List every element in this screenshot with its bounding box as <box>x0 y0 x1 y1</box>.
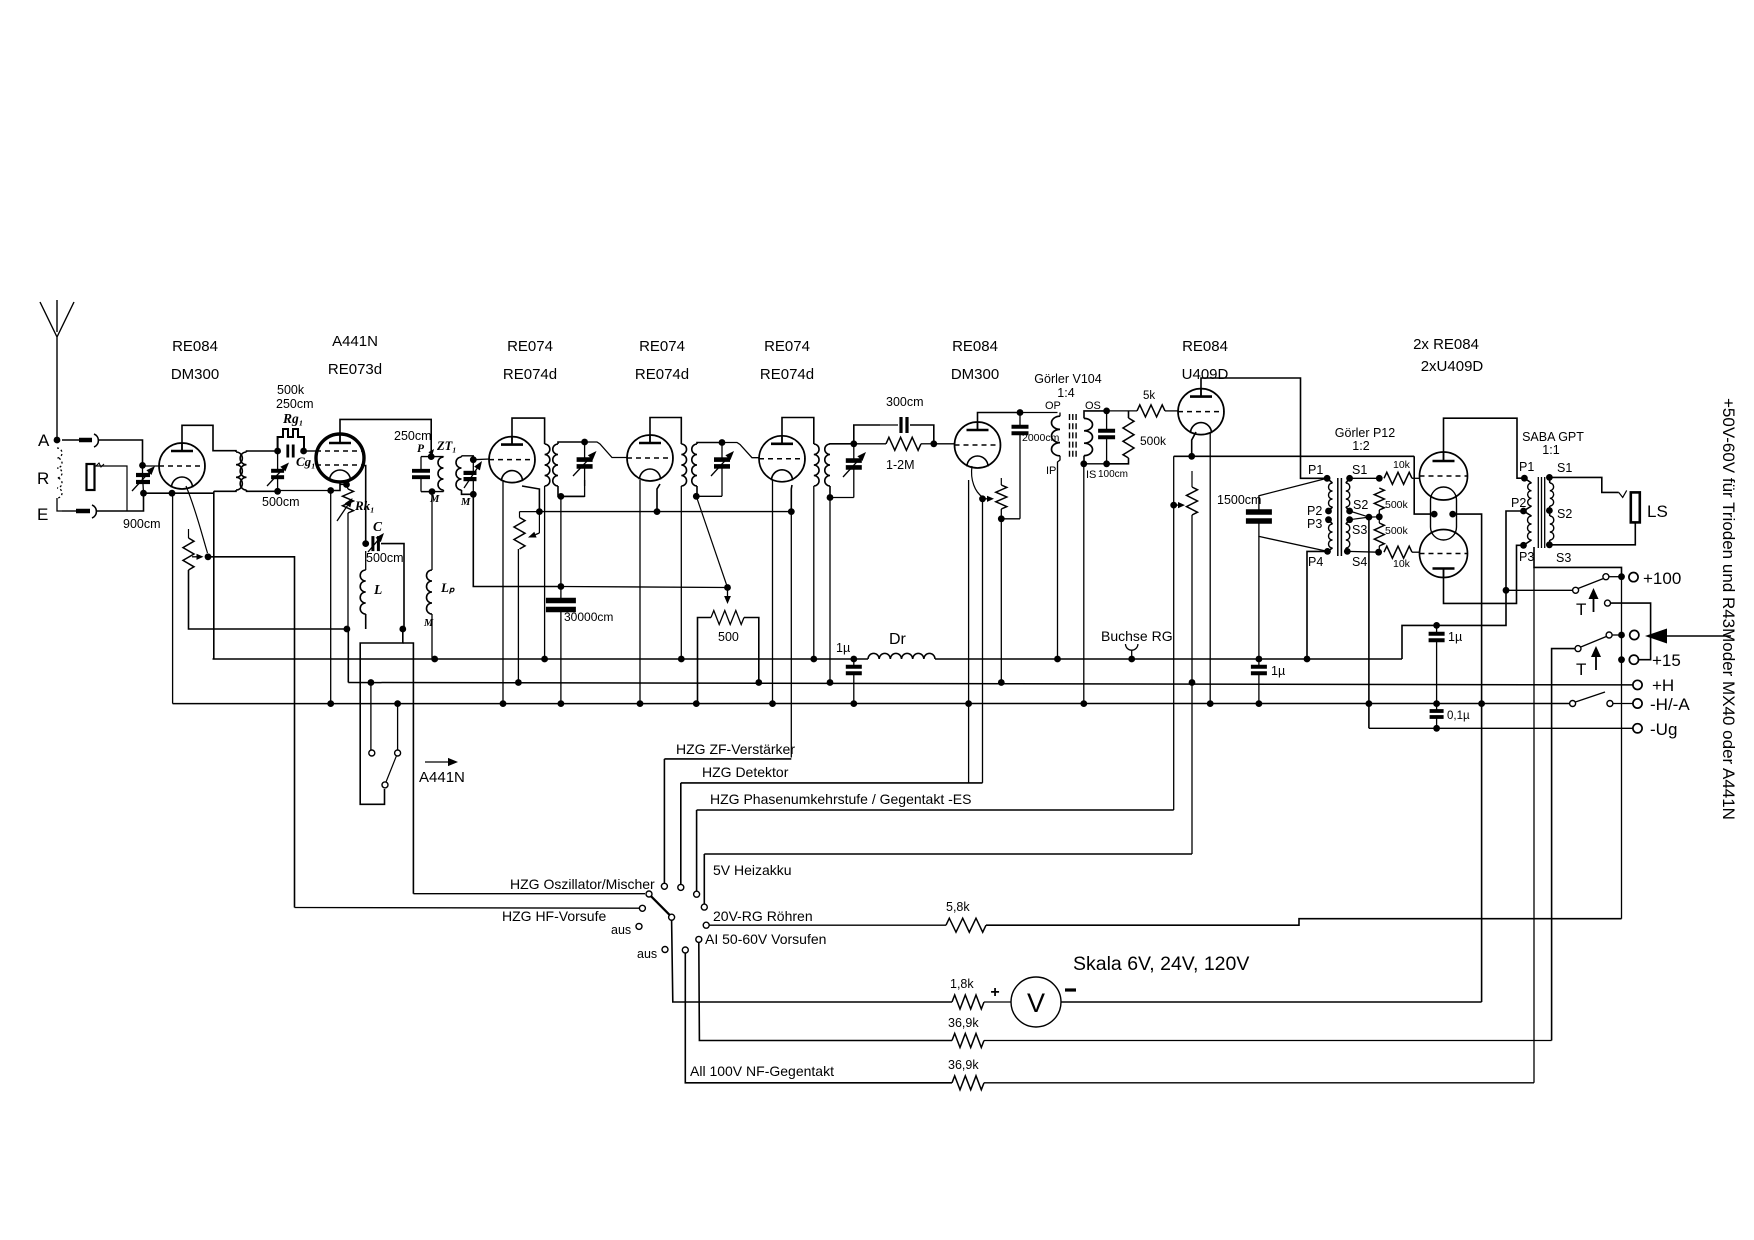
wire +100 down feed <box>1621 577 1623 919</box>
voltmeter V <box>1011 977 1061 1027</box>
jack Buchse RG <box>1126 644 1138 650</box>
bus1 anode return <box>213 658 1403 660</box>
wire LS bottom to S3 <box>1549 522 1635 545</box>
svg-text:0,1µ: 0,1µ <box>1447 710 1470 722</box>
svg-text:P4: P4 <box>1308 555 1323 569</box>
svg-text:L: L <box>373 582 382 597</box>
label minus <box>1065 988 1076 991</box>
svg-text:P: P <box>417 443 425 455</box>
svg-text:900cm: 900cm <box>123 517 161 531</box>
transformer T4 primary coil <box>814 444 819 486</box>
rotary contact c3 <box>694 891 700 897</box>
wire Lp bus segment <box>432 658 435 660</box>
wire 500cm cap vertical <box>277 451 279 491</box>
rotary contact c4 <box>701 904 707 910</box>
svg-text:HZG Oszillator/Mischer: HZG Oszillator/Mischer <box>510 876 655 892</box>
wire ZT1 secondary top <box>462 456 474 460</box>
capacitor 300cm series <box>899 417 902 433</box>
node dot 30000cm top <box>558 583 565 590</box>
wire V6 filament leg <box>968 480 970 704</box>
svg-text:SABA GPT: SABA GPT <box>1522 430 1584 444</box>
node dot V7 cathode <box>1188 453 1195 460</box>
node dot ZT1 secondary bottom <box>470 491 477 498</box>
svg-text:A441N: A441N <box>419 769 465 786</box>
arrow V3 bias tap <box>538 512 540 533</box>
wire P4 to bus1 <box>1307 551 1328 659</box>
svg-text:T: T <box>1576 660 1586 679</box>
node dot V6 on bus2 <box>998 679 1005 686</box>
svg-text:2xU409D: 2xU409D <box>1421 358 1484 375</box>
resistor shared cathode bias <box>514 518 525 550</box>
arrow V7 bias <box>1174 504 1178 506</box>
terminal +H <box>1633 680 1642 689</box>
resistor 10k upper <box>1384 472 1412 484</box>
svg-text:30000cm: 30000cm <box>564 610 613 624</box>
wire T4 sec top to tank <box>830 443 854 445</box>
wire C cap to L rail <box>381 544 404 629</box>
svg-text:DM300: DM300 <box>951 366 999 383</box>
wire T3 grid jog to V5 <box>722 443 760 458</box>
tube V1 RE084 DM300 <box>159 443 205 489</box>
wire V2 cathode junction <box>340 485 348 490</box>
node dot V6 filament on bus3 <box>965 700 972 707</box>
wire 10k lower to V9 grid <box>1412 551 1420 553</box>
tube V7 RE084 U409D <box>1178 389 1224 435</box>
wire RC bottom join <box>1001 518 1020 520</box>
capacitor 1500cm <box>1246 509 1272 515</box>
node dot V6 plate node <box>1017 409 1024 416</box>
svg-text:-Ug: -Ug <box>1650 720 1677 739</box>
wire bias resistor bottom leg <box>517 549 519 683</box>
rotary contact aus left <box>636 923 642 929</box>
capacitor 2000cm <box>1012 425 1029 429</box>
resistor V6 bias <box>996 485 1007 509</box>
node dot T2 primary on bus1 <box>541 656 548 663</box>
svg-text:A441N: A441N <box>332 333 378 350</box>
node dot T3 tank bottom <box>693 493 700 500</box>
capacitor ZT1 grid coupling variable <box>464 471 477 475</box>
capacitor C 500cm series (osc) <box>371 536 374 551</box>
plug on E line <box>76 509 90 514</box>
wire T contact to +15 <box>1611 603 1651 660</box>
wire A plug to grid node <box>99 440 143 465</box>
wire V3 plate to T2 primary <box>512 418 545 445</box>
wire bus2 left end up <box>347 629 349 683</box>
wire V6 cathode curve <box>972 466 983 497</box>
arrow T upper <box>1593 599 1595 612</box>
svg-text:Cg₁: Cg₁ <box>296 454 316 469</box>
wire voltmeter to filament feed <box>1061 1001 1482 1003</box>
switch A441N contact left <box>369 750 375 756</box>
wire E plug to cathode rail <box>97 493 144 511</box>
transformer T2 primary coil <box>545 444 550 486</box>
coupling coil R (dotted) <box>57 448 62 498</box>
node dot V1 bias junction <box>205 553 212 560</box>
wire ZT1 bottom drop to 30000cm rail <box>473 494 561 586</box>
svg-text:S3: S3 <box>1556 551 1571 565</box>
svg-text:IP: IP <box>1046 465 1056 477</box>
svg-text:500k: 500k <box>277 383 305 397</box>
rotary contact aus bottom <box>662 947 668 953</box>
node dot resistor leg on bus2 <box>515 679 522 686</box>
wire T3 tank cap branches <box>721 443 723 497</box>
svg-text:10k: 10k <box>1393 459 1411 471</box>
wire V8 plate to SABA P1 <box>1444 418 1525 478</box>
terminal -H/-A <box>1633 699 1642 708</box>
transformer T4 secondary coil <box>825 444 830 486</box>
wire T4 sec bottom <box>829 486 831 498</box>
svg-text:500k: 500k <box>1385 525 1409 537</box>
svg-text:R: R <box>37 469 49 488</box>
wire V1 bias resistor bottom to oscillator rail <box>189 570 347 629</box>
wire V5 cathode <box>790 485 793 512</box>
transformer T1 primary coil <box>236 452 242 490</box>
wire T4 primary bottom to bus1 <box>813 486 815 659</box>
svg-text:A: A <box>38 431 50 450</box>
node dot 500k mid <box>1376 513 1383 520</box>
potentiometer V1 cathode bias <box>183 538 194 570</box>
svg-text:S4: S4 <box>1352 555 1367 569</box>
rotary contact 20V <box>703 922 709 928</box>
switch T upper contact <box>1605 600 1611 606</box>
wire bus3 left end up (V1 filament) <box>172 493 174 703</box>
svg-text:P1: P1 <box>1519 460 1534 474</box>
wire V5 cathode drop to ZF line <box>790 512 792 758</box>
wire tank bottom to 30000cm <box>560 496 562 586</box>
wire V6 RC bottom to bus2 <box>1000 519 1002 683</box>
node dot V7 filament on bus3 <box>1207 700 1214 707</box>
wire bus1 right end to 1u rail <box>1402 625 1437 659</box>
svg-text:RE084: RE084 <box>172 338 218 355</box>
wire V104 IS bottom <box>1083 456 1085 464</box>
svg-text:1µ: 1µ <box>1271 664 1285 678</box>
node dot filament wire on bus3 <box>1478 700 1485 707</box>
node dot ZT1 secondary top <box>470 456 477 463</box>
node dot filament left <box>1431 511 1438 518</box>
wire T3 primary bottom to bus1 <box>680 486 682 659</box>
wire V3 filament leg <box>502 480 504 704</box>
wire S1 rail to 10k <box>1350 477 1380 479</box>
node dot tank top <box>428 453 435 460</box>
wire 1500cm diagonals to P1 P4 <box>1259 478 1327 512</box>
HZG Phasenumkehrstufe line <box>697 809 1174 811</box>
svg-text:HZG HF-Vorsufe: HZG HF-Vorsufe <box>502 908 606 924</box>
tube V9 RE084 lower <box>1420 530 1468 578</box>
wire V104 OS top <box>1084 411 1107 419</box>
wire Cg1 node to A441N grid <box>304 450 316 452</box>
wire IS rail <box>1084 463 1107 465</box>
node dot A441N switch feed bus3 <box>394 700 401 707</box>
wire 1u Dr stubs <box>853 659 855 704</box>
arrow A441N <box>425 761 448 763</box>
svg-text:Rk₁: Rk₁ <box>354 498 375 513</box>
wire T3 sec bottom <box>695 486 698 496</box>
wire T2 grid jog to V4 <box>585 442 628 458</box>
wire T2 primary bottom to bus1 <box>544 486 546 659</box>
wire T1 primary bottom return <box>214 490 236 491</box>
node dot V3 cathode <box>536 508 543 515</box>
rotary contact NF <box>682 947 688 953</box>
transformer V104 primary coil <box>1052 416 1061 456</box>
wire B+ to switch pivot <box>1506 589 1573 591</box>
svg-text:U409D: U409D <box>1182 366 1229 383</box>
svg-text:5V Heizakku: 5V Heizakku <box>713 862 792 878</box>
node dot P2 <box>1325 508 1332 515</box>
wire 20V contact to 5.8k line <box>709 924 946 926</box>
svg-text:RE074d: RE074d <box>760 366 814 383</box>
wire V2 cath left leg to heater bus <box>330 491 332 704</box>
node dot 1u Dr on bus3 <box>850 700 857 707</box>
node dot bus2 on osc rail <box>368 679 375 686</box>
node dot S4 10k junction <box>1375 549 1382 556</box>
node dot T4 bottom on bus2 <box>827 679 834 686</box>
node dot 1u Dr top <box>850 656 857 663</box>
antenna <box>40 300 74 440</box>
svg-text:Skala 6V, 24V, 120V: Skala 6V, 24V, 120V <box>1073 953 1249 975</box>
wire V6 cathode drop to Detektor line <box>982 499 984 783</box>
svg-text:36,9k: 36,9k <box>948 1058 979 1072</box>
node dot cathode rail junction <box>169 490 176 497</box>
node dot Rg1 right <box>300 448 307 455</box>
transformer P12 primary winding 1 <box>1329 483 1333 507</box>
transformer ZT1 right coil <box>456 457 461 490</box>
wire plate node to V104 OP <box>1020 412 1058 414</box>
wire cap left stub <box>854 425 898 444</box>
svg-text:300cm: 300cm <box>886 395 924 409</box>
node dot S2S3 join <box>1366 514 1373 521</box>
switch A441N moving contact <box>382 782 388 788</box>
wire filament right down to heater bus3 <box>1453 514 1482 1002</box>
svg-text:S1: S1 <box>1352 463 1367 477</box>
svg-text:20V-RG Röhren: 20V-RG Röhren <box>713 908 813 924</box>
node dot V2 cathode right <box>343 481 350 488</box>
capacitor 100cm <box>1098 429 1115 433</box>
wire ZT1 secondary bottom <box>462 490 474 494</box>
svg-text:P1: P1 <box>1308 463 1323 477</box>
node dot 500cm bottom <box>274 488 281 495</box>
bus3 heater rail <box>173 703 1570 705</box>
tube V3 RE074 #1 <box>489 437 535 483</box>
node dot GPT P3 <box>1520 542 1527 549</box>
svg-text:HZG Detektor: HZG Detektor <box>702 764 789 780</box>
wire A441N switch feed from bus3 <box>397 704 399 750</box>
svg-text:500k: 500k <box>1140 434 1167 448</box>
svg-text:IS: IS <box>1086 469 1096 481</box>
wire AI contact down to 36.9k line <box>699 942 952 1040</box>
node dot 1u right on bus3 <box>1433 700 1440 707</box>
resistor V7 bias <box>1187 487 1198 515</box>
capacitor 0.1u <box>1430 709 1444 713</box>
resistor 1.8k <box>952 995 984 1009</box>
wire T3 tank cap bottom join <box>696 495 722 497</box>
wire 5k to V7 grid <box>1165 410 1178 412</box>
rotary contact c1 <box>661 883 667 889</box>
node dot V3 filament on bus3 <box>500 700 507 707</box>
wire 1u right stubs <box>1436 625 1438 703</box>
node dot IS bottom <box>1080 460 1087 467</box>
rotary contact c2 <box>678 884 684 890</box>
node dot P4 <box>1324 548 1331 555</box>
wire V4 filament leg <box>639 480 641 704</box>
fuse break symbol <box>1619 490 1627 497</box>
node dot V4 filament on bus3 <box>637 700 644 707</box>
svg-text:T: T <box>1576 600 1586 619</box>
wire 36.9k lower to +100 feed <box>984 1082 1534 1084</box>
node dot V104 IP on bus1 <box>1054 656 1061 663</box>
resistor Rk1 variable <box>343 489 354 513</box>
node dot P1 <box>1324 475 1331 482</box>
variable capacitor 900cm <box>136 473 150 477</box>
svg-text:+H: +H <box>1652 676 1674 695</box>
wire T1 secondary bottom to 500cm rail <box>247 490 278 491</box>
transformer GPT primary winding 2 <box>1528 516 1532 540</box>
svg-text:M: M <box>460 497 471 508</box>
node dot 1u left on bus3 <box>1256 700 1263 707</box>
wire V1 cathode diagonal to bias junction <box>186 486 208 553</box>
svg-text:V: V <box>1027 988 1045 1018</box>
wire 1.8k to voltmeter <box>984 1001 1011 1003</box>
wire V3 cathode <box>522 486 539 512</box>
node dot pot500 left on bus3 <box>693 700 700 707</box>
svg-text:RE074d: RE074d <box>503 366 557 383</box>
HZG Oszillator/Mischer line <box>413 893 645 895</box>
terminal A dot <box>54 437 61 444</box>
tube V6 RE084 DM300 detector <box>955 422 1001 468</box>
terminal -Ug <box>1633 724 1642 733</box>
wire T2 tank cap branches <box>584 442 586 486</box>
svg-text:36,9k: 36,9k <box>948 1016 979 1030</box>
node dot T4 tank top <box>850 440 857 447</box>
capacitor 250cm tank <box>412 469 430 473</box>
arrow into V1 bias potentiometer <box>192 556 197 558</box>
wire R plug to E wire <box>95 466 127 511</box>
svg-text:5,8k: 5,8k <box>946 900 970 914</box>
wire T4 bottom drop to bus2 <box>829 498 831 683</box>
switch A441N contact right <box>395 750 401 756</box>
svg-text:1500cm: 1500cm <box>1217 493 1261 507</box>
rotary switch lever <box>651 896 670 915</box>
variable capacitor T4 tank <box>846 458 862 463</box>
switch -H/-A <box>1570 701 1576 707</box>
node dot P4 on bus1 <box>1304 656 1311 663</box>
wire 100cm stubs <box>1106 411 1108 464</box>
wire supply pivot to AI line <box>1552 649 1575 1041</box>
svg-text:RE074: RE074 <box>764 338 810 355</box>
plug R (detector jack) <box>87 464 95 490</box>
wire 10k to V8 grid <box>1412 477 1420 479</box>
node dot grid2 drop <box>362 540 369 547</box>
node dot T2 tank top <box>581 439 588 446</box>
wire T4 tank cap branches <box>853 444 855 498</box>
capacitor 1u (left) <box>1251 665 1267 669</box>
transformer T3 primary coil <box>681 444 686 486</box>
wire tank rails <box>421 457 444 492</box>
transformer GPT core <box>1538 477 1544 548</box>
node dot grid RC right <box>930 440 937 447</box>
wire pot500 left lead <box>698 618 712 704</box>
node dot S3 <box>1346 516 1353 523</box>
node dot V7 resistor on bus2 <box>1189 679 1196 686</box>
node dot V4 cathode <box>654 508 661 515</box>
wire filament left to V7 cathode rail <box>1414 456 1434 514</box>
wire T2 sec top to tank <box>558 442 585 444</box>
variable capacitor 500cm (osc grid) <box>271 469 284 473</box>
wire V4 plate to T3 primary <box>650 418 681 445</box>
node dot S1 <box>1346 475 1353 482</box>
svg-text:10k: 10k <box>1393 558 1411 570</box>
rail 30000cm to pot500 <box>561 587 728 588</box>
wire V1 plate to transformer T1 primary <box>182 425 236 452</box>
wire 1500cm bottom to bus1 <box>1258 536 1260 659</box>
wire -Ug line <box>1369 727 1633 729</box>
terminal supply feed <box>1630 630 1639 639</box>
svg-text:2x RE084: 2x RE084 <box>1413 336 1479 353</box>
transformer T2 secondary coil <box>553 444 558 486</box>
node dot +15 dot <box>1618 656 1625 663</box>
svg-text:100cm: 100cm <box>1098 469 1128 480</box>
resistor Rg1 (block symbol) <box>278 429 304 451</box>
wire 5.8k to +15 feed <box>986 919 1622 926</box>
wire T1 secondary top to Cg1 node <box>247 451 278 452</box>
node dot B+ node <box>1503 587 1510 594</box>
HZG ZF-Verstaerker line <box>664 758 791 760</box>
wire lever output down to voltmeter line <box>672 920 952 1002</box>
svg-text:2000cm: 2000cm <box>1022 432 1060 444</box>
svg-text:S1: S1 <box>1557 461 1572 475</box>
resistor 1-2M <box>886 437 921 450</box>
wire 500k chain mid <box>1378 510 1380 517</box>
filament capsule between V8 V9 <box>1431 487 1457 540</box>
wire T3 sec top to tank <box>697 443 722 445</box>
svg-text:5k: 5k <box>1143 390 1155 402</box>
wire V5 filament leg <box>772 480 774 704</box>
wire V7 bias resistor to bus2 and Heizakku line <box>1191 515 1193 854</box>
transformer ZT1 left coil <box>438 457 443 490</box>
resistor 500k upper <box>1374 488 1384 510</box>
svg-text:1µ: 1µ <box>1448 630 1462 644</box>
node dot osc rail left <box>344 626 351 633</box>
node dot V5 filament on bus3 <box>769 700 776 707</box>
wire V4 cathode <box>657 484 660 512</box>
wire V7 filament leg <box>1209 432 1211 704</box>
svg-text:Görler P12: Görler P12 <box>1335 426 1395 440</box>
switch +100 <box>1573 587 1579 593</box>
wire OS top rail <box>1107 410 1137 412</box>
wire T2 tank cap bottom <box>561 480 585 496</box>
wire V9 plate to SABA P3 <box>1444 545 1524 603</box>
svg-text:RE084: RE084 <box>1182 338 1228 355</box>
wire +100 rail down to NF line <box>1533 567 1535 1082</box>
transformer GPT secondary winding 2 <box>1550 516 1554 540</box>
node dot T4 tank bottom <box>827 494 834 501</box>
transformer T1 secondary coil <box>240 452 246 490</box>
wire A441N switch feed from bus2 <box>370 683 372 751</box>
node dot GPT P2 <box>1520 508 1527 515</box>
wire 36.9k upper to supply switch <box>984 1040 1552 1042</box>
transformer V104 secondary coil <box>1084 418 1093 455</box>
wire T4 top to RC <box>854 425 880 444</box>
arrow supply feed in <box>1667 635 1731 637</box>
wire V6 filament leg to Detektor line <box>968 704 970 783</box>
svg-text:RE084: RE084 <box>952 338 998 355</box>
node dot OS top <box>1103 408 1110 415</box>
wire R-coil bottom to E corner <box>57 498 62 511</box>
wire V1 cathode rail <box>144 492 214 494</box>
svg-text:250cm: 250cm <box>276 397 314 411</box>
svg-text:M: M <box>429 494 440 505</box>
wire RC to V6 grid <box>934 443 955 445</box>
arrow into potentiometer 500 <box>727 588 729 597</box>
